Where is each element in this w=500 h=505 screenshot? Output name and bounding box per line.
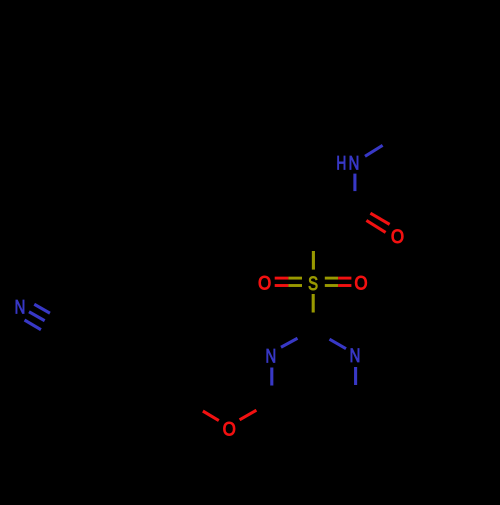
nitrile bond line lower — [25, 320, 42, 330]
S=O right double bond — [325, 277, 338, 280]
svg-text:S: S — [308, 273, 318, 294]
svg-text:O: O — [355, 273, 368, 294]
svg-text:O: O — [223, 419, 236, 440]
svg-text:N: N — [350, 345, 361, 366]
nitrile bond line main — [29, 312, 45, 321]
bond ether O to aryl C — [203, 411, 219, 421]
C=O line lower — [352, 213, 366, 221]
svg-text:N: N — [266, 346, 277, 367]
S=O left double bond — [275, 277, 289, 280]
ring bond C2 - N1 (left) — [298, 330, 314, 338]
C=O line upper — [358, 205, 371, 214]
svg-text:O: O — [258, 273, 271, 294]
svg-text:O: O — [391, 226, 404, 247]
bond amide N to cyclohexyl C — [365, 145, 383, 156]
nitrile bond line upper — [34, 304, 50, 313]
bond S down to ring C2 — [312, 294, 315, 313]
invisible ring bottom bonds (carbon) — [272, 403, 356, 428]
svg-text:N: N — [15, 297, 26, 318]
ring bond C2 - N3 (right) — [313, 330, 330, 339]
ring bond N3 down to C4 — [354, 367, 357, 385]
bond S up to CH2 — [312, 251, 315, 270]
bond amide N down to carbonyl C — [353, 174, 356, 192]
bond ring C6 to ether O — [256, 404, 271, 411]
ring bond N1 down to C6 — [270, 368, 273, 386]
svg-text:N: N — [349, 153, 360, 174]
svg-text:H: H — [336, 152, 346, 174]
